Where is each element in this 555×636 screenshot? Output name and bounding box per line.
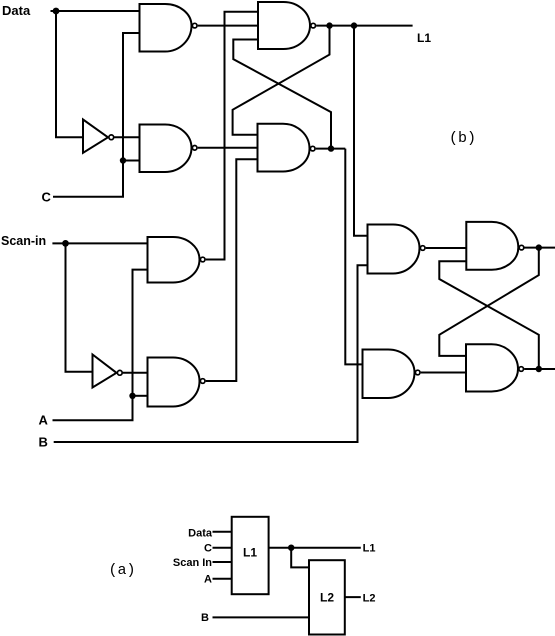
svg-text:C: C: [42, 190, 52, 205]
svg-text:B: B: [201, 612, 209, 624]
wire: Data input to NAND1: [51, 10, 140, 12]
inverter INV2 (Scan-in): [93, 355, 123, 388]
svg-text:Data: Data: [188, 528, 213, 540]
wire: B to L2 block: [213, 616, 310, 618]
node: Scan-in junction: [62, 240, 69, 247]
wire: L1 block output: [269, 547, 361, 549]
wire: C to NAND1 lower input: [53, 33, 140, 197]
nand gate N6 (notScan AND A): [148, 358, 206, 407]
wire: Scan-in down to inverter INV2: [66, 243, 93, 371]
wire: NAND10 output cross-coupled to NAND9 input: [439, 261, 539, 369]
nand gate N8 (notL1 AND B): [363, 350, 421, 399]
node: NAND10 output dot: [536, 366, 542, 372]
svg-text:(b): (b): [449, 130, 476, 147]
wire: Data stub to L1 block: [213, 531, 232, 533]
wire: C stub to L1 block: [213, 547, 232, 549]
nand gate N3 (L1 set): [258, 2, 316, 49]
svg-text:Data: Data: [2, 3, 31, 18]
wire: NAND3 output / L1 node: [316, 25, 412, 27]
nand gate N1 (Data AND C): [140, 4, 198, 52]
nand gate N10 (L2 reset): [466, 344, 524, 391]
node: Data junction: [53, 8, 60, 15]
svg-text:Scan-in: Scan-in: [1, 234, 46, 248]
svg-text:(a): (a): [109, 562, 136, 579]
wire: NAND8 output to NAND10: [421, 372, 466, 374]
nand gate N2 (notData AND C): [140, 125, 198, 173]
block L2 latch: [309, 560, 345, 634]
wire: NAND5 output up to NAND3 top input: [206, 12, 258, 260]
node: NAND4 output dot: [328, 145, 334, 151]
wire: NAND9 output: [525, 247, 555, 249]
svg-text:L1: L1: [243, 546, 257, 560]
wire: NAND6 output up to NAND4 lower input: [206, 159, 258, 381]
wire: NAND1 output to NAND3: [198, 25, 258, 27]
wire: NAND4 output wire: [316, 148, 346, 150]
svg-text:L2: L2: [320, 591, 334, 605]
svg-text:C: C: [204, 543, 212, 555]
wire: NAND4 output cross-coupled to NAND3 input: [233, 40, 331, 149]
wire: A stub to L1 block: [213, 578, 232, 580]
wire: L1 node down to NAND7: [354, 26, 368, 236]
node: L1 output junction: [288, 545, 294, 551]
svg-text:Scan In: Scan In: [173, 557, 212, 569]
wire: B to NAND7 lower input: [54, 265, 368, 442]
svg-text:L2: L2: [363, 593, 376, 605]
wire: NAND4 output down to NAND8: [345, 149, 362, 365]
wire: A branch to NAND6 lower input: [133, 395, 148, 397]
node: C branch junction: [120, 157, 126, 163]
wire: C branch to NAND2 lower input: [123, 160, 140, 162]
node: A branch junction: [129, 393, 135, 399]
svg-text:A: A: [39, 413, 49, 428]
wire: NAND7 output to NAND9: [426, 247, 467, 249]
inverter INV1 (Data): [83, 120, 114, 153]
svg-text:B: B: [39, 435, 48, 450]
nand gate N9 (L2 set): [466, 222, 524, 270]
svg-text:L1: L1: [363, 543, 376, 555]
nand gate N7 (L1 AND B): [368, 225, 426, 274]
nand gate N5 (Scan-in AND A): [148, 237, 206, 283]
node: NAND9 output dot: [536, 244, 542, 250]
block L1 latch: [232, 517, 269, 594]
svg-text:L1: L1: [417, 31, 431, 45]
wire: Scan-in input to NAND5: [52, 242, 147, 244]
wire: INV2 output to NAND6: [123, 372, 148, 374]
wire: NAND2 output to NAND4: [198, 147, 258, 149]
node: L1 node dot 2: [351, 22, 357, 28]
wire: NAND9 output cross-coupled to NAND10 input: [439, 248, 539, 356]
wire: NAND10 output: [524, 368, 555, 370]
wire: NAND3 output cross-coupled to NAND4 input: [233, 26, 330, 135]
wire: Scan In stub to L1 block: [213, 561, 232, 563]
wire: Data down to inverter INV1: [56, 11, 83, 137]
wire: A to NAND5 lower input: [53, 270, 148, 421]
wire: INV1 output to NAND2: [114, 136, 139, 138]
wire: L1 output down to L2 block: [291, 548, 309, 568]
wire: L2 block output: [345, 596, 361, 598]
nand gate N4 (L1 reset): [258, 124, 316, 172]
svg-text:A: A: [204, 574, 212, 586]
node: L1 node dot 1: [326, 22, 332, 28]
